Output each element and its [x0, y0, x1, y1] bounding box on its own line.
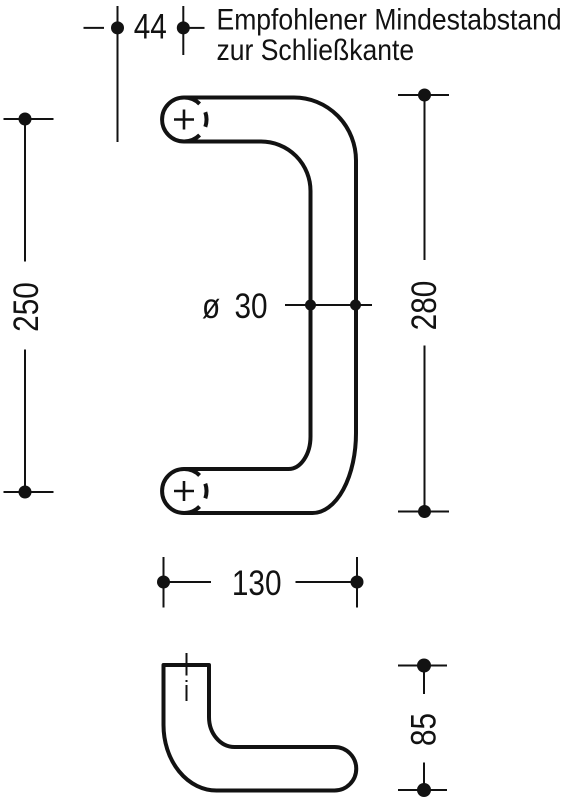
svg-text:44: 44	[134, 7, 167, 46]
handle front view top end cap arc	[162, 98, 200, 142]
handle front view inner contour	[184, 142, 311, 470]
dimension 250 line upper segment	[24, 119, 26, 262]
dimension 85 dot top	[417, 659, 431, 673]
handle side view centerline	[186, 653, 188, 701]
dimension 280 dot top	[418, 89, 431, 102]
dimension 280 dot bottom	[418, 505, 431, 518]
dimension 280 line upper segment	[424, 95, 426, 260]
dimension 44 tick left	[84, 27, 105, 29]
dimension 85 dot bottom	[417, 783, 431, 797]
svg-text:280: 280	[405, 281, 444, 331]
dimension 280 tick bottom	[398, 511, 449, 513]
dimension 44 tick right	[189, 27, 205, 29]
dimension 250 tick top	[4, 118, 54, 120]
dimension 250 label	[7, 282, 46, 332]
handle front view bottom end cap arc	[162, 469, 200, 513]
dimension 130 line left segment	[164, 581, 212, 583]
dimension 85 tick bottom	[398, 789, 447, 791]
handle side view outline	[164, 665, 357, 791]
dimension dia 30 dot right	[350, 300, 361, 311]
svg-text:ø: ø	[202, 287, 220, 326]
title text line 1	[217, 3, 562, 37]
handle front view bottom screw cross	[174, 481, 194, 501]
dimension 44 extension line right	[182, 6, 184, 55]
dimension dia 30 number	[235, 287, 268, 326]
dimension 85 line lower segment	[423, 763, 425, 791]
dimension 44 dot right	[177, 21, 190, 34]
handle front view bottom rose right arc	[205, 484, 206, 499]
svg-text:250: 250	[7, 282, 46, 332]
dimension 130 dot left	[157, 576, 170, 589]
dimension dia 30 leader line	[285, 304, 372, 306]
dimension 85 tick top	[398, 665, 447, 667]
handle front view outer contour	[184, 98, 356, 514]
dimension 85 label	[404, 713, 443, 746]
dimension 250 dot bottom	[19, 486, 32, 499]
dimension 130 dot right	[351, 576, 364, 589]
svg-text:zur Schließkante: zur Schließkante	[217, 34, 415, 68]
dimension dia 30 symbol	[202, 287, 220, 326]
handle front view top rose right arc	[205, 112, 206, 127]
svg-text:Empfohlener Mindestabstand: Empfohlener Mindestabstand	[217, 3, 562, 37]
dimension 250 dot top	[19, 113, 32, 126]
dimension 280 line lower segment	[424, 346, 426, 512]
svg-text:30: 30	[235, 287, 268, 326]
dimension 44 extension line left	[117, 6, 119, 142]
dimension 130 line right segment	[296, 581, 358, 583]
dimension 280 tick top	[398, 94, 449, 96]
dimension 250 tick bottom	[4, 491, 54, 493]
dimension 44 dot left	[111, 21, 124, 34]
dimension 130 tick right	[356, 557, 358, 608]
svg-text:85: 85	[404, 713, 443, 746]
dimension 44 label	[134, 7, 167, 46]
title text line 2	[217, 34, 415, 68]
dimension 280 label	[405, 281, 444, 331]
dimension 130 tick left	[163, 557, 165, 608]
handle front view top screw cross	[174, 110, 194, 130]
dimension dia 30 dot left	[305, 300, 316, 311]
dimension 130 label	[232, 564, 282, 603]
dimension 85 line upper segment	[423, 666, 425, 695]
svg-text:130: 130	[232, 564, 282, 603]
dimension 250 line lower segment	[24, 350, 26, 493]
